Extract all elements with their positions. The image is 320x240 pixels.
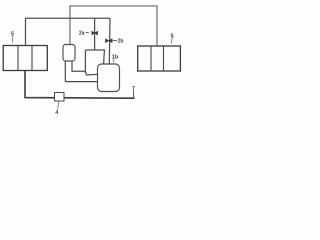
svg-text:5: 5 [171, 33, 174, 39]
wire valve 2a branch pipe [94, 18, 96, 50]
label 4 leader [58, 102, 59, 110]
tank 1b [98, 64, 120, 92]
svg-text:1b: 1b [112, 54, 119, 60]
svg-text:5: 5 [11, 32, 14, 38]
label 5 right leader [170, 38, 173, 44]
wire top loop W1 [70, 6, 157, 46]
heat exchanger right divider 2 [163, 46, 165, 71]
wire W5 tank1a left drain to tank1b [65, 61, 99, 82]
heat exchanger right divider 1 [150, 46, 152, 71]
valve 2a [92, 31, 98, 35]
svg-text:2a: 2a [79, 30, 85, 36]
wire second loop W2 [26, 18, 111, 45]
wire W6 bottom return pipe [25, 71, 135, 99]
heat exchanger left divider 2 [31, 46, 33, 71]
svg-text:7: 7 [132, 86, 135, 92]
svg-text:4: 4 [55, 110, 58, 116]
label 2b dash [113, 40, 117, 42]
tank 1a [63, 45, 75, 62]
wire W3 horizontal [85, 50, 104, 64]
wire W4 tank1a right drain to tank1b [72, 61, 99, 76]
label 2a dash [86, 31, 89, 33]
label 7 leader [133, 90, 135, 98]
heat exchanger left divider 1 [17, 46, 19, 71]
label 1b leader [112, 59, 115, 62]
wire valve 2b drop pipe [108, 18, 111, 64]
svg-text:2b: 2b [118, 39, 124, 45]
heat exchanger 5 (left box) [3, 46, 47, 71]
label 5 left leader [11, 36, 14, 43]
valve 2b [106, 39, 113, 43]
pump 4 (small box on bottom pipe) [55, 93, 65, 102]
wire W3 vertical drop [84, 50, 86, 73]
heat exchanger 5 (right box) [138, 46, 181, 71]
